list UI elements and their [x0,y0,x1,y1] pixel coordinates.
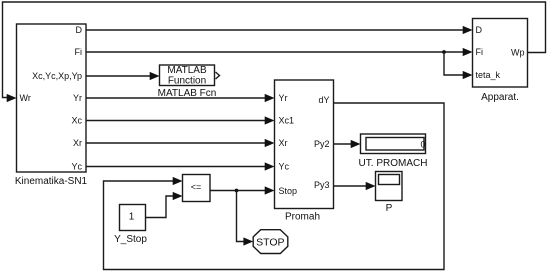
wire D [86,26,473,34]
svg-text:Fi: Fi [75,47,83,57]
wire Py3 [334,182,376,190]
svg-text:Fi: Fi [476,47,484,57]
svg-text:Yr: Yr [279,93,288,103]
svg-text:Kinematika-SN1: Kinematika-SN1 [15,176,88,187]
svg-text:Y_Stop: Y_Stop [114,234,147,245]
svg-text:Xc,Yc,Xp,Yp: Xc,Yc,Xp,Yp [32,71,82,81]
wire Xc,Yc,Xp,Yp to MATLAB Fcn [86,72,160,80]
wire feedback Wp to Wr [3,2,546,102]
constant Y_Stop [114,205,147,246]
relational operator <= [183,175,211,202]
wire dY feedback loop to relational operator [104,103,445,270]
wire relational output to Stop input [210,186,275,194]
svg-text:MATLAB: MATLAB [167,65,207,76]
subsystem Kinematika-SN1 [15,24,88,187]
wire Xc [86,116,275,124]
svg-text:Xc1: Xc1 [279,116,295,126]
wire Y_Stop to relational operator [146,192,183,218]
svg-text:D: D [76,25,83,35]
svg-text:P: P [386,203,393,214]
svg-text:<=: <= [191,182,202,192]
subsystem Apparat. [473,19,528,104]
svg-text:Stop: Stop [279,186,298,196]
display UT. PROMACH [359,134,428,169]
svg-text:Apparat.: Apparat. [481,92,519,103]
scope P [376,172,403,215]
svg-text:1: 1 [129,212,135,223]
STOP block [253,230,288,254]
wire Py2 [334,140,361,148]
svg-text:MATLAB Fcn: MATLAB Fcn [158,88,217,99]
wire Fi [86,48,473,56]
svg-text:Yc: Yc [71,162,82,172]
svg-text:dY: dY [318,95,329,105]
svg-text:Function: Function [168,76,206,87]
wire Yr [86,94,275,102]
svg-text:UT. PROMACH: UT. PROMACH [359,158,428,169]
svg-text:Py2: Py2 [314,139,330,149]
svg-text:teta_k: teta_k [476,70,501,80]
wire to STOP block [237,191,254,246]
junction Fi branch [442,50,446,54]
svg-text:0: 0 [420,140,425,150]
wire teta_k branch [444,52,473,79]
wire Xr [86,139,275,147]
svg-text:Yc: Yc [279,162,290,172]
svg-text:STOP: STOP [256,237,284,249]
svg-text:Promah: Promah [285,212,320,223]
svg-text:Xr: Xr [73,138,82,148]
subsystem Promah [275,80,334,223]
svg-text:Yr: Yr [73,93,82,103]
svg-text:Py3: Py3 [314,180,330,190]
svg-text:Wr: Wr [20,93,31,103]
svg-text:Xc: Xc [71,116,82,126]
svg-text:Xr: Xr [279,138,288,148]
svg-text:Wp: Wp [511,48,525,58]
svg-text:D: D [476,25,483,35]
block MATLAB Fcn [158,65,220,99]
junction stop branch [235,189,239,193]
wire Yc [86,162,275,170]
